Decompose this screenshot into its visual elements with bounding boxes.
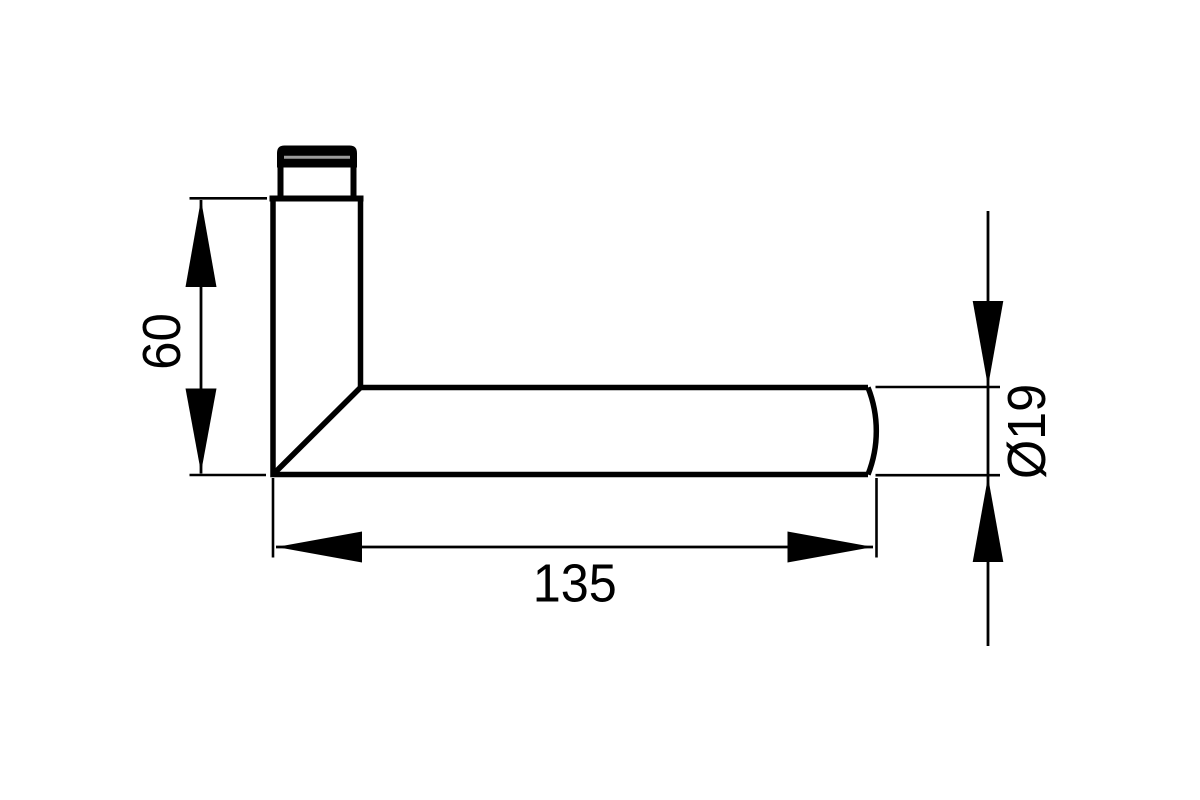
extension line right (135) [875,478,878,558]
spindle cap right side [351,166,357,197]
spindle cap band [277,146,357,168]
lever end arc [868,388,876,475]
neck shoulder [270,196,364,202]
neck left edge + lever bottom edge [273,199,868,475]
arrow down (60) [186,389,217,473]
dimension line diameter [987,211,990,646]
svg-text:Ø19: Ø19 [997,384,1057,479]
arrow right (135) [788,532,874,563]
svg-text:60: 60 [132,313,193,370]
arrow up onto bottom line (diameter) [973,477,1004,562]
grip chamfer diagonal [273,388,361,475]
spindle cap highlight line [284,156,350,159]
dimension line 60 [200,200,203,474]
arrow down onto top line (diameter) [973,301,1004,387]
extension line bottom (diameter) [876,474,1001,477]
extension line left (135) [272,478,275,558]
arrow up (60) [186,200,217,288]
extension line bottom (60) [190,474,267,477]
spindle cap left side [278,166,284,197]
dimension line 135 [276,546,873,549]
arrow left (135) [277,532,363,563]
extension line top (60) [190,197,268,200]
neck right edge + lever top edge [361,199,869,388]
extension line top (diameter) [876,386,1001,389]
svg-text:135: 135 [533,554,617,614]
